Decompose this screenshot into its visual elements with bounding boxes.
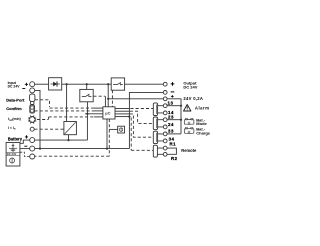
wire remote line uC to R1/R2 [131,118,153,151]
wire uC ground down [106,119,108,149]
label Bat.-Charge [196,127,211,136]
wire 33 to common bus [167,133,181,135]
wire aux 24V 0,2A line [108,98,163,100]
svg-text:24V 0,2A: 24V 0,2A [183,96,203,101]
node J3 (uC supply branch) [107,83,109,85]
wire negative bus up to output- [129,92,163,148]
svg-text:DC 24V: DC 24V [8,84,21,88]
potentiometer knob t(min) [28,115,36,123]
wire Confirm to uC pin2 [35,110,95,112]
Data-Port connector symbol [30,94,35,104]
svg-text:Data-Port: Data-Port [6,97,25,102]
node J4 (input-/battery- tie) [39,148,41,150]
svg-text:23: 23 [168,115,174,120]
terminal input + [30,82,35,87]
battery B1 (external battery module) [6,143,20,167]
wire Data-Port to uC pin1 [35,99,49,101]
node J9 (uC gnd on bus) [128,116,130,118]
svg-text:DC 24V: DC 24V [7,152,17,156]
relay contact K2 (23/24 bat-mode) [153,117,163,130]
node on bus at 13 [180,105,182,107]
relay contact K1 (13/14 alarm) [153,103,163,116]
terminal 23 [163,118,167,122]
node J7 (battery sense to uC) [86,113,88,115]
node on bus at 23 [180,119,182,121]
svg-text:DC 24V: DC 24V [183,85,197,90]
wire node J3 down to uC [107,84,109,107]
wire 13 to common bus [167,105,181,107]
wire uC to alarm relay K1 control [115,108,129,110]
wire uC ground pin to negative bus [115,116,129,118]
svg-text:trel(min): trel(min) [8,117,21,122]
relay contact K3 (33/34 bat-charge) [153,131,163,143]
terminal aux 24V [163,97,167,101]
svg-text:Alarm: Alarm [195,106,210,111]
svg-text:Mode: Mode [196,121,207,126]
wire uC to bat-mode relay K2 control [115,110,129,112]
switch S2 (output disconnect switch) [111,78,124,90]
wire diode to switch S2 [62,83,111,85]
svg-text:I < In: I < In [8,126,16,131]
op-amp U1 microcontroller uC [103,107,115,119]
wire knob t(min) to uC pin4 [37,119,49,121]
wire battery temp sensor dashed [20,152,30,156]
wire battery+ bus [35,139,88,141]
svg-text:Remote: Remote [181,148,197,153]
wire input- down left bus [35,90,40,148]
terminal output + [163,82,167,86]
terminal input - [30,88,35,93]
wire node J1 down to charger [66,84,68,121]
wire 23 to common bus [167,119,181,121]
wire battery box - to terminal [20,148,30,150]
svg-text:µC: µC [105,110,110,115]
node J2 (battery switch branch) [86,83,88,85]
wire switch S2 to output+ [125,83,164,85]
svg-text:24: 24 [168,122,174,127]
diode D1 (decoupling diode box) [49,78,62,90]
Confirm button symbol [30,105,35,113]
label Bat.-Mode [196,117,207,126]
svg-text:Battery: Battery [8,136,23,141]
terminal output - [163,91,167,95]
node J6 (charger/battery+ tie) [67,139,69,141]
terminal battery temp [30,154,35,159]
wire uC to battery temp sensor [108,119,110,156]
node J5 (uC ground tie) [106,148,108,150]
svg-text:R1: R1 [170,142,177,147]
LED I<In [30,127,34,131]
wire switch S1 to main bus [86,84,88,89]
svg-text:R2: R2 [171,156,178,161]
label Battery [8,135,28,146]
terminal 33 [163,132,167,136]
relay contact R1/R2 remote input [153,145,163,157]
terminal 14 [163,111,167,115]
svg-text:Charge: Charge [196,130,211,135]
terminal battery - [30,146,35,151]
wire uC to bat-charge relay K3 control [115,113,129,115]
terminal R2 [163,152,167,156]
wire uC to switch S1 control [93,95,105,97]
wire uC to thermal model box [109,128,117,130]
label Output DC 24V [171,81,198,98]
svg-text:13: 13 [168,101,174,106]
wire aux+ to relay common bus [167,99,181,134]
wire uC to switch S2 control [111,90,113,107]
wire battery+ up to switch S1 [86,102,88,140]
wire negative bus bottom [35,148,130,150]
terminal battery + [30,138,35,143]
capacitor/thermal box theta (battery model) [118,126,125,133]
wire charger to battery+ bus [68,135,70,140]
wire battery box + to terminal [20,140,30,143]
svg-text:Confirm: Confirm [6,106,22,111]
terminal 24 [163,125,167,129]
node J1 (charger branch) [66,83,68,85]
wire remote jumper R1-R2 [167,148,176,154]
svg-text:33: 33 [168,128,174,133]
wire input+ to diode D1 [35,83,49,85]
warning triangle alarm [184,105,191,112]
terminal 34 [163,139,167,143]
switch S1 (battery switch) [80,89,93,101]
wire LED I<In to charger [34,128,64,130]
terminal R1 [163,146,167,150]
node J8 (aux 24V tap) [107,98,109,100]
terminal 13 [163,104,167,108]
wire battery sense node J7 to uC pin3 [85,113,103,115]
label Input DC 24V [8,81,28,89]
icon bat-charge relay [184,127,194,134]
charger U2 (DC/DC converter box) [64,122,77,135]
icon bat-mode relay [184,118,194,125]
